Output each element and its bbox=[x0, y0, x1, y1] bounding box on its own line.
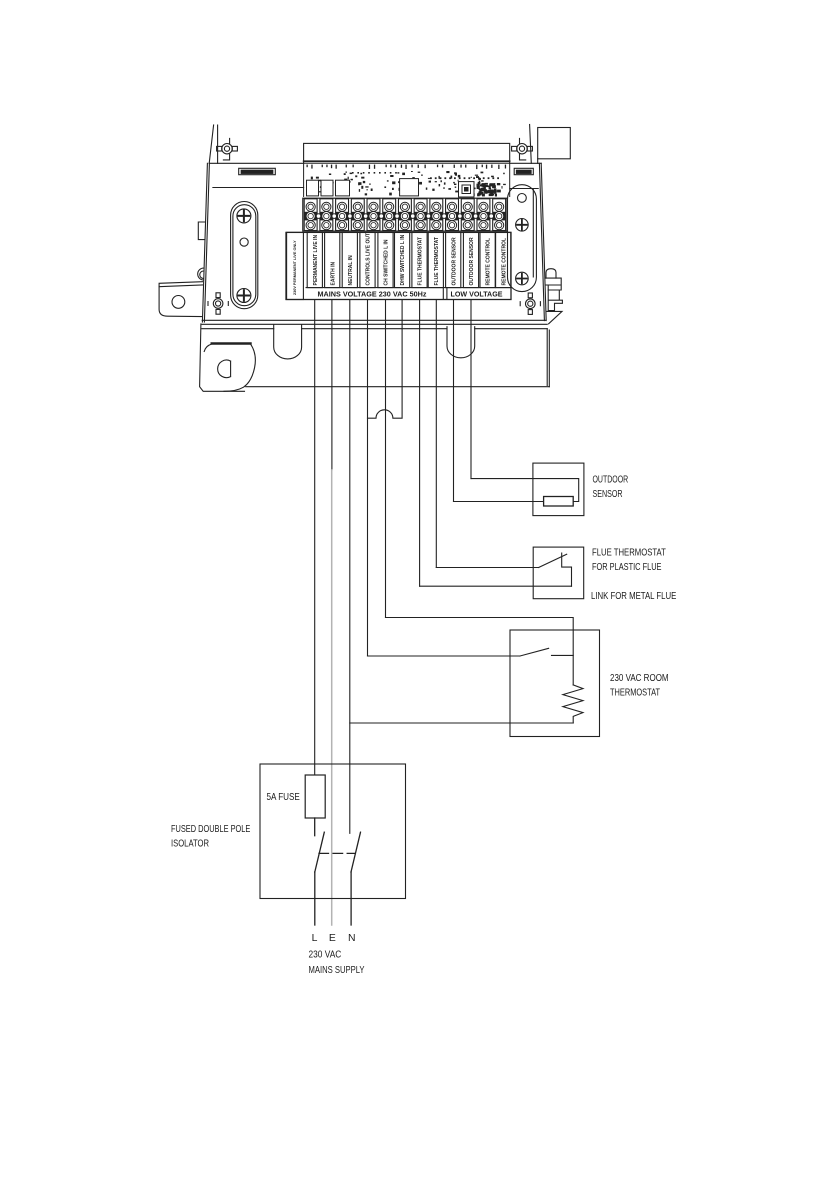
left capsule middle hole bbox=[240, 238, 248, 246]
wire: outdoor sensor 1 down bbox=[453, 300, 455, 502]
wire: CH switched live to room thermostat bbox=[386, 618, 574, 685]
svg-text:MAINS VOLTAGE 230 VAC 50Hz: MAINS VOLTAGE 230 VAC 50Hz bbox=[318, 290, 427, 299]
wire: CH switched live down bbox=[385, 300, 387, 618]
lower band right edge bbox=[547, 329, 549, 387]
terminal junction 7 bbox=[410, 214, 415, 219]
wire: flue thermostat 1 to flue stat box bbox=[420, 585, 572, 587]
PCB solder blobs bbox=[307, 171, 506, 197]
terminal block 7 bbox=[398, 199, 411, 231]
wire: earth upper segment bbox=[331, 300, 333, 471]
right capsule top hole bbox=[518, 194, 527, 203]
flue thermostat contact bbox=[562, 553, 572, 586]
svg-text:FUSED DOUBLE POLE: FUSED DOUBLE POLE bbox=[171, 824, 250, 835]
wire: outdoor sensor 2 down bbox=[470, 300, 472, 479]
isolator N pole out bbox=[350, 872, 352, 925]
cabinet top-right edge line bbox=[530, 125, 532, 164]
terminal strip base bbox=[303, 198, 507, 231]
svg-text:N: N bbox=[348, 933, 356, 944]
wire: outdoor sensor 1 to sensor bbox=[454, 501, 544, 503]
control box top cover bbox=[304, 143, 510, 163]
PCB white component bbox=[400, 179, 419, 196]
isolator L pole switch blade bbox=[315, 832, 325, 872]
terminal junction 5 bbox=[379, 214, 384, 219]
lower band bottom edge bbox=[246, 386, 550, 388]
chassis fold line behind right capsule bbox=[533, 159, 537, 277]
label column box bbox=[496, 232, 511, 287]
svg-text:FLUE THERMOSTAT: FLUE THERMOSTAT bbox=[434, 237, 440, 285]
isolator box bbox=[260, 764, 406, 899]
svg-text:OUTDOOR: OUTDOOR bbox=[593, 475, 629, 486]
svg-text:SENSOR: SENSOR bbox=[593, 489, 623, 500]
label column box bbox=[360, 232, 375, 287]
terminal block 2 bbox=[320, 199, 333, 231]
PCB component leads row bbox=[307, 165, 507, 170]
left bracket hole bbox=[172, 296, 185, 309]
left capsule top screw bbox=[237, 209, 251, 223]
outdoor sensor element R bbox=[544, 497, 574, 507]
terminal junction 6 bbox=[395, 214, 400, 219]
wire: permanent live (L) down to isolator fuse bbox=[314, 300, 316, 776]
mains/low voltage divider bbox=[443, 288, 447, 300]
terminal block 6 bbox=[383, 199, 396, 231]
lower-right small screw bbox=[526, 299, 536, 309]
terminal block 1 bbox=[304, 199, 317, 231]
label column box bbox=[395, 232, 410, 287]
svg-text:ISOLATOR: ISOLATOR bbox=[171, 838, 209, 849]
terminal junction 9 bbox=[442, 214, 447, 219]
terminal block 5 bbox=[367, 199, 380, 231]
wire: neutral down to isolator bbox=[349, 300, 351, 834]
terminal junction 3 bbox=[348, 214, 353, 219]
terminal block 10 bbox=[445, 199, 458, 231]
left edge bump bbox=[198, 268, 204, 280]
right mounting bracket bbox=[546, 269, 556, 278]
terminal block 3 bbox=[335, 199, 348, 231]
svg-text:L: L bbox=[312, 933, 318, 944]
svg-text:THERMOSTAT: THERMOSTAT bbox=[610, 687, 660, 698]
terminal junction 10 bbox=[458, 214, 463, 219]
label column box bbox=[480, 232, 495, 287]
lower band left edge bbox=[200, 324, 245, 391]
isolator L pole: lead below fuse bbox=[314, 818, 316, 836]
label band divider line bbox=[306, 287, 511, 289]
left capsule bottom screw bbox=[237, 289, 251, 303]
terminal note column box bbox=[287, 232, 304, 299]
wire: neutral branch to room thermostat resistor bbox=[350, 722, 573, 724]
wire: controls live out to room thermostat switch bbox=[368, 655, 521, 657]
PCB area outline bbox=[304, 163, 510, 196]
left edge tab bbox=[198, 222, 204, 240]
PCB relay footprint 2 bbox=[321, 180, 333, 196]
terminal label box bbox=[286, 232, 511, 299]
terminal junction 11 bbox=[473, 214, 478, 219]
room thermostat box bbox=[510, 630, 600, 737]
svg-text:REMOTE CONTROL: REMOTE CONTROL bbox=[486, 238, 492, 286]
left chassis edge (slanted, double) bbox=[202, 163, 209, 322]
svg-text:230V PERMANENT LIVE ONLY: 230V PERMANENT LIVE ONLY bbox=[293, 240, 297, 295]
terminal junction 4 bbox=[363, 214, 368, 219]
wire: flue thermostat 1 down bbox=[419, 300, 421, 587]
svg-text:230 VAC ROOM: 230 VAC ROOM bbox=[610, 673, 669, 684]
terminal junction 8 bbox=[426, 214, 431, 219]
svg-text:NEUTRAL IN: NEUTRAL IN bbox=[348, 255, 354, 286]
terminal junction 1 bbox=[316, 214, 321, 219]
outdoor sensor box bbox=[533, 463, 584, 515]
svg-text:OUTDOOR SENSOR: OUTDOOR SENSOR bbox=[469, 237, 475, 285]
terminal block 8 bbox=[414, 199, 427, 231]
wire: controls live out down bbox=[367, 300, 369, 657]
PCB relay footprint 3 bbox=[336, 180, 350, 196]
cabinet top-left edge lines bbox=[209, 125, 217, 163]
chassis bottom edge line bbox=[202, 319, 546, 321]
terminal block 13 bbox=[492, 199, 505, 231]
left cable notch bbox=[274, 325, 302, 359]
svg-text:MAINS SUPPLY: MAINS SUPPLY bbox=[309, 965, 365, 976]
svg-text:FOR PLASTIC FLUE: FOR PLASTIC FLUE bbox=[592, 562, 662, 573]
isolator N pole switch blade bbox=[351, 832, 361, 872]
svg-text:REMOTE CONTROL: REMOTE CONTROL bbox=[501, 238, 507, 286]
right chassis edge (slanted, double) bbox=[539, 163, 546, 320]
left screw capsule (double outline) bbox=[231, 202, 258, 309]
room thermostat switch blade bbox=[520, 648, 549, 656]
left mounting bracket bbox=[159, 282, 203, 317]
svg-text:E: E bbox=[329, 933, 336, 944]
svg-text:CH SWITCHED L IN: CH SWITCHED L IN bbox=[384, 239, 390, 285]
svg-text:DHW SWITCHED L IN: DHW SWITCHED L IN bbox=[400, 234, 406, 285]
svg-text:230 VAC: 230 VAC bbox=[309, 949, 342, 960]
isolator mechanical link (dashed) bbox=[319, 852, 355, 854]
right handle bar bbox=[514, 168, 533, 174]
top-right mounting screw bbox=[517, 144, 527, 154]
right cable notch bbox=[447, 327, 475, 358]
label column box bbox=[446, 232, 461, 287]
svg-text:FLUE THERMOSTAT: FLUE THERMOSTAT bbox=[418, 237, 424, 285]
terminal junction 12 bbox=[489, 214, 494, 219]
wire: flue thermostat 2 down bbox=[435, 300, 437, 568]
chassis face top fold line bbox=[213, 188, 538, 189]
room thermostat switch contact bbox=[552, 654, 574, 656]
PCB relay footprint 1 bbox=[307, 180, 319, 196]
right screw capsule bbox=[508, 185, 537, 292]
chassis top edge bbox=[209, 162, 541, 164]
terminal block 4 bbox=[351, 199, 364, 231]
label column box bbox=[463, 232, 478, 287]
right capsule middle screw bbox=[516, 219, 529, 232]
right capsule bottom screw bbox=[516, 272, 529, 285]
wire: earth lower segment (grey) bbox=[331, 470, 333, 925]
svg-text:LINK FOR METAL FLUE: LINK FOR METAL FLUE bbox=[591, 591, 676, 602]
label column box bbox=[342, 232, 357, 287]
svg-text:EARTH IN: EARTH IN bbox=[330, 262, 336, 286]
terminal block 9 bbox=[430, 199, 443, 231]
lower-left small screw bbox=[213, 299, 223, 309]
svg-text:FLUE THERMOSTAT: FLUE THERMOSTAT bbox=[592, 548, 666, 559]
label column box bbox=[412, 232, 427, 287]
wire: flue thermostat 2 to flue stat switch bbox=[436, 567, 538, 569]
cable clamp C-hole bbox=[218, 360, 231, 378]
cable clamp blob bbox=[204, 344, 255, 391]
lower band top lines bbox=[202, 323, 547, 325]
isolator L pole out bbox=[314, 872, 316, 925]
terminal block 12 bbox=[477, 199, 490, 231]
left handle bar bbox=[239, 168, 276, 174]
svg-text:PERMANENT LIVE IN: PERMANENT LIVE IN bbox=[313, 235, 319, 286]
svg-text:LOW VOLTAGE: LOW VOLTAGE bbox=[451, 290, 503, 299]
svg-text:5A FUSE: 5A FUSE bbox=[267, 792, 300, 803]
wire: DHW switched live link with hop bbox=[368, 300, 403, 419]
label column box bbox=[307, 232, 322, 287]
bottom-right corner flap bbox=[547, 311, 562, 323]
svg-text:OUTDOOR SENSOR: OUTDOOR SENSOR bbox=[451, 237, 457, 285]
wire: outdoor sensor 2 into sensor box bbox=[471, 479, 579, 502]
flue thermostat box bbox=[533, 547, 584, 599]
terminal block 11 bbox=[461, 199, 474, 231]
label column box bbox=[428, 232, 443, 287]
fuse F1 5A bbox=[305, 775, 325, 818]
svg-text:CONTROLS LIVE OUT: CONTROLS LIVE OUT bbox=[366, 233, 372, 286]
flue thermostat switch blade bbox=[539, 554, 567, 567]
top-right cover plate bbox=[538, 128, 571, 159]
PCB square component U1 bbox=[459, 182, 475, 197]
label column box bbox=[378, 232, 393, 287]
top-left mounting screw bbox=[222, 144, 232, 154]
label column box bbox=[325, 232, 340, 287]
terminal junction 2 bbox=[332, 214, 337, 219]
room thermostat resistor (anticipator) bbox=[563, 685, 583, 723]
PCB dotted pin row bbox=[352, 172, 499, 179]
